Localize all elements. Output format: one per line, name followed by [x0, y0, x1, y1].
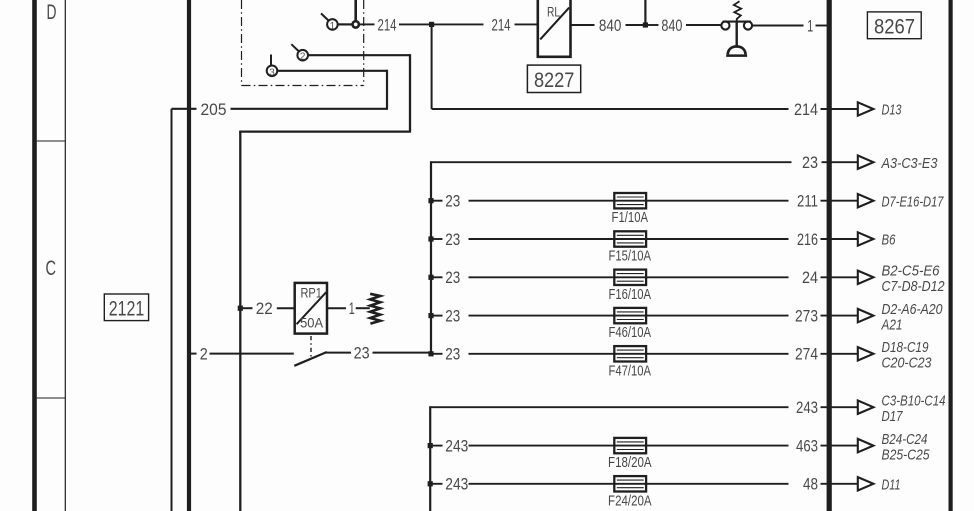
- wire net 2 segment b: [210, 353, 294, 355]
- wire net 840 segment c: [648, 24, 659, 26]
- wire net 23 from switch segment b: [373, 352, 432, 354]
- connector arrow B24-C24: [858, 439, 874, 452]
- junction node fuse F1: [428, 198, 433, 203]
- wire row F24 main: [469, 483, 789, 485]
- wire net 1 segment a: [752, 25, 803, 27]
- wire row F15 left stub: [431, 238, 443, 240]
- svg-text:243: 243: [445, 475, 468, 494]
- horn top bar: [723, 21, 751, 23]
- svg-text:463: 463: [796, 437, 818, 456]
- feed wire from top edge: [354, 0, 357, 21]
- page border left thick rule: [32, 0, 37, 511]
- wire net 214 segment d: [515, 23, 538, 25]
- wire net 840 segment b: [626, 24, 644, 26]
- wire net 214 drop to row D13: [431, 24, 433, 109]
- svg-text:216: 216: [797, 230, 818, 249]
- fuse bus vertical (net 23): [430, 161, 432, 354]
- svg-text:23: 23: [445, 307, 460, 326]
- junction node fuse F47: [428, 351, 433, 356]
- wire net 22 segment b: [277, 307, 295, 309]
- shunt coil symbol: [370, 294, 380, 324]
- master switch blade: [294, 352, 327, 366]
- svg-text:RL: RL: [547, 4, 560, 19]
- wire net 1 segment b: [816, 25, 830, 27]
- wire row F1 left stub: [431, 200, 443, 202]
- wire row F47 main: [469, 353, 789, 355]
- wire net 840 segment a: [571, 24, 595, 26]
- stub to top edge: [644, 0, 646, 25]
- junction node fuse F24: [428, 481, 433, 486]
- svg-text:B6: B6: [882, 232, 896, 249]
- svg-text:B25-C25: B25-C25: [882, 446, 931, 463]
- svg-text:840: 840: [599, 16, 622, 35]
- svg-text:214: 214: [794, 100, 818, 119]
- svg-text:8227: 8227: [534, 68, 575, 92]
- svg-text:214: 214: [492, 15, 511, 34]
- connector arrow D18-C19: [858, 347, 874, 360]
- switch contact 1: [327, 19, 338, 30]
- relay RL body: [538, 0, 571, 57]
- svg-text:A21: A21: [881, 316, 903, 333]
- component label box 8227: [527, 65, 580, 92]
- svg-text:1: 1: [807, 16, 813, 35]
- wire net 22 vertical (to bottom): [239, 132, 241, 511]
- wire corner vertical x387: [386, 70, 388, 109]
- svg-text:F16/10A: F16/10A: [609, 287, 652, 303]
- svg-text:D7-E16-D17: D7-E16-D17: [882, 193, 944, 210]
- ECU 8267 left boundary (thick): [827, 0, 832, 511]
- fuse bus vertical (net 243): [429, 406, 431, 511]
- svg-text:F47/10A: F47/10A: [609, 363, 652, 379]
- wire horizontal y131: [239, 130, 411, 132]
- wire net 2 segment a: [189, 353, 197, 355]
- switch housing dash-dot left edge: [241, 0, 243, 86]
- svg-text:F1/10A: F1/10A: [612, 210, 649, 226]
- wire row F15 main: [469, 238, 789, 240]
- fuse F47 (F47/10A): [614, 346, 646, 361]
- wire net 840 segment d: [686, 24, 722, 26]
- wire contact1 to terminal ring: [338, 23, 353, 25]
- connector arrow D11: [858, 477, 874, 490]
- svg-text:D17: D17: [882, 408, 903, 425]
- svg-text:48: 48: [803, 475, 818, 494]
- svg-text:D: D: [47, 0, 57, 24]
- wire contact2 to corner: [308, 54, 410, 56]
- svg-text:22: 22: [256, 299, 273, 318]
- wire row F24 left stub: [430, 483, 442, 485]
- svg-text:840: 840: [661, 16, 682, 35]
- svg-text:2121: 2121: [109, 296, 145, 320]
- fuse F46 (F46/10A): [614, 308, 646, 323]
- supply bus vertical (thick): [187, 0, 191, 511]
- wire row A3 (net 23): [431, 161, 792, 163]
- junction node 22: [238, 306, 243, 311]
- svg-text:F46/10A: F46/10A: [609, 325, 652, 341]
- wire row F18 main: [469, 445, 789, 447]
- svg-text:C20-C23: C20-C23: [882, 355, 933, 372]
- wire row D13 (net 214): [432, 108, 789, 110]
- svg-text:D13: D13: [882, 102, 902, 119]
- svg-text:50A: 50A: [300, 315, 324, 331]
- switch contact 2: [297, 50, 308, 61]
- connector arrow D2-A6-A20: [858, 309, 874, 322]
- fuse F1 (F1/10A): [614, 193, 646, 208]
- connector arrow A3-C3-E3: [858, 156, 874, 169]
- wire row F1 main: [469, 200, 789, 202]
- svg-text:3: 3: [269, 67, 275, 78]
- fuse F24 (F24/20A): [614, 476, 646, 491]
- svg-text:23: 23: [445, 230, 460, 249]
- wire row F46 left stub: [431, 315, 443, 317]
- connector arrow B2-C5-E6: [858, 271, 874, 284]
- svg-text:C: C: [46, 256, 57, 280]
- component label box 2121: [104, 294, 148, 321]
- grid row tick D/C: [37, 140, 66, 142]
- svg-text:F24/20A: F24/20A: [608, 493, 652, 509]
- junction node fuse F46: [428, 313, 433, 318]
- fuse F15 (F15/10A): [614, 231, 646, 246]
- svg-text:243: 243: [796, 398, 818, 417]
- junction node 840: [643, 22, 648, 27]
- svg-text:23: 23: [445, 192, 460, 211]
- connector arrow B6: [858, 232, 874, 245]
- wire contact3 to corner: [277, 70, 387, 72]
- svg-text:214: 214: [378, 15, 397, 34]
- horn armature shaft: [736, 22, 738, 46]
- wire row C3-B10 (net 243): [430, 406, 788, 408]
- wire row F47 left stub: [431, 353, 443, 355]
- ECU 8267 right boundary (thick): [948, 0, 952, 511]
- fuse F16 (F16/10A): [614, 270, 646, 285]
- svg-text:211: 211: [797, 192, 818, 211]
- wire row F18 left stub: [430, 445, 442, 447]
- wire corner vertical x410: [409, 54, 411, 132]
- svg-text:205: 205: [201, 100, 227, 119]
- svg-text:23: 23: [354, 344, 370, 363]
- wire net 214 segment b: [399, 23, 429, 25]
- wire net 205 vertical (to bottom): [171, 109, 173, 511]
- wire row F16 main: [469, 276, 789, 278]
- svg-text:243: 243: [445, 437, 468, 456]
- component label box 8267: [867, 12, 921, 39]
- wire net 1 (RP1 out) segment b: [356, 307, 370, 309]
- switch housing dash-dot bottom edge: [242, 85, 364, 87]
- svg-text:24: 24: [802, 268, 818, 287]
- wire net 1 (RP1 out) segment a: [327, 307, 346, 309]
- connector arrow D7-E16-D17: [858, 194, 874, 207]
- switch housing dash-dot right edge: [363, 0, 365, 86]
- svg-text:F18/20A: F18/20A: [608, 455, 652, 471]
- horn coil left loop: [721, 21, 729, 29]
- horn trumpet dome: [728, 46, 746, 54]
- svg-text:273: 273: [795, 307, 818, 326]
- svg-text:23: 23: [802, 153, 818, 172]
- wire row F46 main: [469, 315, 789, 317]
- svg-text:C7-D8-D12: C7-D8-D12: [882, 278, 946, 295]
- svg-text:1: 1: [349, 299, 355, 318]
- fuse RP1 diagonal: [297, 292, 327, 324]
- junction node fuse F16: [428, 275, 433, 280]
- wire row F16 left stub: [431, 276, 443, 278]
- relay RL internal diagonal: [540, 8, 569, 40]
- svg-text:1: 1: [330, 21, 336, 32]
- connector arrow D13: [858, 102, 874, 115]
- svg-text:23: 23: [445, 345, 460, 364]
- wire net 205 horizontal: [172, 108, 197, 110]
- svg-text:F15/10A: F15/10A: [609, 249, 652, 265]
- grid row tick C/B: [37, 397, 66, 399]
- horn trumpet base: [726, 54, 747, 57]
- wire net 214 segment a: [359, 23, 374, 25]
- wire net 23 from switch segment a: [325, 352, 351, 354]
- svg-text:A3-C3-E3: A3-C3-E3: [881, 155, 938, 172]
- junction node fuse F15: [428, 236, 433, 241]
- connector arrow C3-B10-C14: [858, 401, 874, 414]
- horn coil right loop: [744, 21, 752, 29]
- switch contact 3: [267, 66, 278, 77]
- svg-text:D11: D11: [882, 476, 901, 493]
- wire net 214 segment c: [434, 23, 484, 25]
- junction node 214: [429, 22, 434, 27]
- fuse F18 (F18/20A): [614, 438, 646, 453]
- page border left thin rule: [64, 0, 66, 511]
- svg-text:2: 2: [200, 345, 208, 364]
- horn spring zigzag: [734, 1, 741, 21]
- fuse RP1 body: [295, 283, 327, 334]
- svg-text:23: 23: [445, 268, 460, 287]
- terminal ring node: [353, 21, 359, 27]
- wire net 22 segment a: [243, 307, 253, 309]
- svg-text:8267: 8267: [874, 15, 915, 39]
- svg-text:2: 2: [300, 52, 306, 63]
- switch mechanical dash-dot link: [310, 336, 312, 357]
- svg-text:RP1: RP1: [300, 285, 322, 301]
- junction node fuse F18: [428, 443, 433, 448]
- svg-text:274: 274: [795, 345, 818, 364]
